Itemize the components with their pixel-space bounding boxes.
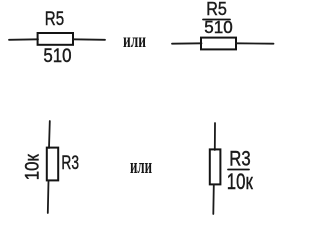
svg-text:510: 510 (43, 45, 71, 67)
svg-text:R5: R5 (45, 8, 64, 30)
wire right lead of resistor R5 variant 1 (73, 38, 105, 41)
svg-text:или: или (130, 154, 152, 178)
wire bottom lead of resistor R3 variant 2 (212, 185, 215, 215)
wire top lead of resistor R3 variant 2 (214, 123, 216, 150)
resistor R5 body (variant 1, horizontal) (38, 33, 73, 45)
svg-text:R3: R3 (229, 147, 250, 170)
wire left lead of resistor R5 variant 2 (172, 42, 202, 44)
wire left lead of resistor R5 variant 1 (9, 38, 38, 41)
resistor R3 body (variant 1, vertical) (47, 148, 58, 181)
svg-text:R3: R3 (61, 152, 79, 174)
svg-text:10к: 10к (227, 169, 253, 194)
svg-text:или: или (123, 29, 146, 51)
fraction bar of R3/10к label (variant 2) (228, 169, 249, 171)
resistor R5 body (variant 2, horizontal) (201, 38, 236, 50)
resistor R3 body (variant 2, vertical) (210, 149, 221, 184)
svg-text:510: 510 (204, 17, 232, 37)
wire top lead of resistor R3 variant 1 (48, 121, 51, 148)
fraction bar of R5/510 label (variant 2) (203, 19, 230, 21)
svg-text:10к: 10к (22, 154, 44, 180)
wire right lead of resistor R5 variant 2 (236, 42, 274, 44)
wire bottom lead of resistor R3 variant 1 (47, 181, 50, 214)
